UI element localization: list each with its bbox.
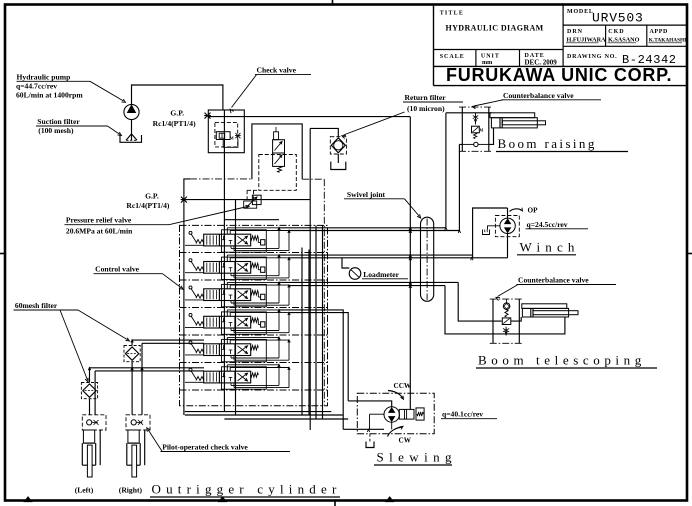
svg-text:q=40.1cc/rev: q=40.1cc/rev — [442, 410, 483, 419]
section 3 lever — [189, 286, 192, 289]
wire boom raising A — [279, 227, 446, 229]
control valve boundary dash-dot — [180, 225, 328, 405]
svg-text:APPD: APPD — [650, 29, 668, 35]
svg-text:OP: OP — [528, 207, 539, 215]
pilot dash to relief — [253, 190, 255, 199]
section 4 lever — [189, 313, 192, 316]
section 3 enclosing rect — [222, 284, 267, 306]
leader to check valve — [232, 75, 257, 108]
pilot check valve right — [126, 415, 150, 430]
wires boom raising valve — [446, 112, 492, 114]
svg-text:SCALE: SCALE — [440, 54, 465, 60]
loadmeter gauge — [349, 268, 361, 280]
section 4 pilot box — [261, 322, 265, 327]
svg-text:(100 mesh): (100 mesh) — [38, 126, 74, 135]
section 1 lever — [189, 231, 192, 234]
pilot dash drop — [246, 190, 248, 199]
svg-text:Hydraulic pump: Hydraulic pump — [17, 73, 71, 82]
wire telescoping A — [279, 281, 458, 283]
leader — [498, 285, 519, 297]
pilot check valve left — [82, 415, 106, 430]
leader to relief valve — [169, 207, 248, 225]
appd underline — [649, 42, 683, 44]
outrigger cylinder right — [128, 430, 139, 443]
svg-text:HYDRAULIC DIAGRAM: HYDRAULIC DIAGRAM — [446, 24, 544, 33]
work port verticals — [301, 248, 303, 416]
tele cb body — [502, 318, 511, 325]
svg-text:G.P.: G.P. — [145, 192, 159, 201]
svg-text:Return filter: Return filter — [405, 93, 447, 102]
section divider — [180, 279, 328, 281]
svg-text:CKD: CKD — [608, 29, 624, 35]
OP arrow — [510, 209, 522, 212]
section 4 spring — [251, 318, 259, 322]
G.P. port star bottom — [181, 197, 188, 203]
check valve inner dashed box — [215, 122, 238, 146]
wire pump to suction filter — [131, 120, 133, 140]
boom raising counterbalance box — [461, 107, 463, 151]
assembly boundary right — [323, 179, 325, 405]
pump triangle — [128, 105, 136, 112]
section 5 port wires — [226, 337, 228, 343]
leader — [474, 100, 503, 106]
section 5 lever — [189, 341, 192, 344]
leaders to filters — [60, 310, 88, 380]
svg-text:Control valve: Control valve — [95, 265, 140, 274]
check valve wire — [223, 139, 238, 147]
control valve section 5 spool — [204, 344, 251, 356]
svg-text:Rc1/4(PT1/4): Rc1/4(PT1/4) — [153, 119, 196, 128]
relief arrow — [246, 197, 257, 208]
tank line top — [224, 219, 279, 221]
section divider — [180, 362, 328, 364]
cb circle port — [474, 142, 478, 146]
wires outrigger row6 — [90, 368, 205, 383]
leader to control valve — [163, 274, 182, 288]
suction filter symbol — [126, 134, 137, 140]
control valve section 4 spool — [204, 316, 251, 328]
leader — [148, 430, 162, 452]
boom raising cylinder — [490, 113, 535, 118]
winch motor — [500, 218, 515, 233]
control valve section 3 spool — [204, 289, 251, 301]
title block — [433, 5, 435, 86]
slewing unit box — [357, 393, 434, 434]
frame triangle bottom 1 — [25, 497, 32, 502]
assembly boundary top left — [190, 178, 252, 180]
section 6 lever — [189, 368, 192, 371]
svg-text:(10 micron): (10 micron) — [407, 104, 445, 113]
unloader spring — [278, 166, 282, 172]
section 6 port wires — [226, 365, 228, 371]
brake release line — [409, 254, 411, 409]
section 4 enclosing rect — [222, 312, 267, 334]
winch brake — [488, 226, 500, 230]
svg-text:TITLE: TITLE — [440, 11, 464, 17]
svg-text:Boom telescoping: Boom telescoping — [478, 353, 646, 368]
svg-text:60L/min at 1400rpm: 60L/min at 1400rpm — [16, 91, 83, 100]
section 1 port wires — [226, 228, 228, 234]
svg-text:Loadmeter: Loadmeter — [363, 270, 399, 279]
svg-text:Rc1/4(PT1/4): Rc1/4(PT1/4) — [126, 201, 169, 210]
swivel joint capsule — [421, 217, 434, 301]
G.P. port star top — [204, 113, 211, 119]
wire telescoping B — [289, 285, 445, 287]
svg-text:Suction filter: Suction filter — [37, 117, 80, 126]
assembly boundary top right — [302, 178, 324, 180]
frame tick bottom — [334, 501, 336, 506]
svg-text:CW: CW — [399, 437, 412, 445]
cb check valve element — [475, 113, 477, 125]
check valve star port — [235, 133, 241, 138]
wire slewing tap B — [289, 313, 348, 401]
section 1 enclosing rect — [222, 230, 267, 252]
section 2 spring — [251, 263, 259, 267]
section 1 pilot box — [261, 240, 265, 245]
drn underline — [566, 42, 599, 44]
check valve element — [216, 132, 230, 140]
svg-text:M: M — [230, 136, 234, 141]
section 3 pilot box — [261, 294, 265, 299]
tele cb bottom arrow — [505, 327, 507, 336]
section 2 lever — [189, 259, 192, 262]
check valve outer box — [208, 110, 244, 153]
wire return filter to block — [310, 128, 338, 136]
unloader top stub — [275, 127, 277, 132]
svg-text:q=44.7cc/rev: q=44.7cc/rev — [16, 82, 57, 91]
frame triangle bottom 3 — [386, 497, 393, 502]
relief line across — [184, 199, 310, 201]
svg-text:Check valve: Check valve — [257, 66, 297, 75]
wires telescoping — [458, 282, 501, 321]
junction arrows — [367, 429, 369, 432]
svg-text:(Left): (Left) — [75, 486, 94, 495]
svg-text:60mesh filter: 60mesh filter — [15, 301, 58, 310]
ckd underline — [608, 42, 637, 44]
swivel centerline — [426, 219, 428, 301]
wire return line down — [309, 128, 311, 430]
motor triangle top — [505, 219, 510, 223]
slewing motor — [384, 407, 399, 422]
telescoping cylinder — [522, 304, 567, 309]
internal line 2 — [235, 200, 237, 415]
section divider — [180, 334, 328, 336]
return filter tank — [337, 154, 339, 163]
suction tank — [120, 135, 142, 142]
svg-text:Counterbalance valve: Counterbalance valve — [503, 91, 574, 100]
leader to swivel joint — [405, 199, 420, 217]
leader to return filter — [344, 112, 405, 135]
hydraulic pump symbol — [124, 104, 139, 119]
frame triangle bottom 2 — [219, 497, 226, 502]
wires slewing — [343, 428, 384, 430]
section 1 spring — [251, 236, 259, 240]
section 5 enclosing rect — [222, 339, 267, 361]
tele cb circle diamond — [503, 303, 510, 310]
leader to suction filter — [108, 126, 121, 135]
section 3 spring — [251, 291, 259, 295]
unloader valve body — [273, 140, 285, 153]
wire boom raising B — [289, 230, 459, 232]
unloader top port — [274, 132, 279, 140]
svg-text:G.P.: G.P. — [170, 109, 184, 118]
slewing tank — [369, 434, 371, 442]
wire main pressure line — [208, 116, 410, 118]
section 4 port wires — [226, 310, 228, 316]
unloader arrow upper — [275, 142, 283, 151]
svg-text:M: M — [480, 129, 484, 133]
wire slewing tap A — [279, 310, 343, 429]
section 2 pilot box — [261, 267, 265, 272]
wires outrigger row5 — [132, 340, 204, 345]
slewing brake cylinder — [399, 409, 414, 419]
winch circuit box — [473, 208, 508, 255]
svg-text:DRN: DRN — [567, 29, 583, 35]
control valve solid frame — [184, 179, 190, 415]
wire winch return H4 — [289, 257, 508, 259]
cb relief body — [472, 126, 480, 133]
svg-text:Outrigger cylinder: Outrigger cylinder — [152, 482, 342, 497]
svg-text:DRAWING NO.: DRAWING NO. — [567, 54, 617, 60]
frame tick top — [332, 0, 334, 5]
control valve section 2 spool — [204, 262, 251, 274]
svg-text:q=24.5cc/rev: q=24.5cc/rev — [527, 220, 568, 229]
wire pressure line down to swivel — [409, 117, 411, 256]
section divider — [180, 307, 328, 309]
frame tick left — [0, 253, 5, 255]
loadmeter tap wire — [342, 258, 349, 268]
svg-text:URV503: URV503 — [592, 11, 644, 26]
svg-text:Winch: Winch — [520, 240, 580, 255]
svg-text:(Right): (Right) — [119, 486, 143, 495]
leader to pump — [90, 81, 124, 101]
return filter diamond — [331, 138, 345, 153]
svg-text:Boom raising: Boom raising — [498, 136, 597, 151]
svg-text:Slewing: Slewing — [377, 450, 457, 465]
outrigger cylinder left — [83, 430, 94, 443]
return filter dashed box — [330, 137, 346, 154]
svg-text:Swivel joint: Swivel joint — [347, 190, 386, 199]
svg-text:Pressure relief valve: Pressure relief valve — [66, 216, 132, 225]
wire pump to check valve — [132, 85, 223, 110]
pump line through block — [223, 110, 225, 412]
svg-text:CCW: CCW — [394, 382, 412, 390]
section 5 spring — [251, 346, 259, 350]
section divider — [180, 389, 328, 391]
wires filters to check valves — [131, 362, 133, 415]
svg-text:20.6MPa at 60L/min: 20.6MPa at 60L/min — [66, 227, 133, 236]
unloader arrow lower — [275, 155, 283, 164]
telescoping counterbalance box — [492, 299, 494, 343]
section divider — [180, 252, 328, 254]
60mesh filter 1 — [124, 346, 140, 362]
block bottom lines — [185, 411, 331, 413]
unloader pilot dashed box — [259, 155, 297, 191]
control valve section 1 spool — [204, 234, 251, 246]
winch motor dashed box — [495, 216, 519, 237]
60mesh filter 2 — [81, 383, 97, 399]
wire winch supply H3 — [279, 254, 473, 256]
frame tick right — [687, 253, 692, 255]
motor triangle bottom — [505, 228, 510, 232]
section 6 spring — [251, 373, 259, 377]
section 3 port wires — [226, 282, 228, 288]
section 6 enclosing rect — [222, 367, 267, 389]
svg-text:Counterbalance valve: Counterbalance valve — [518, 276, 589, 285]
unloader valve solid box — [252, 124, 302, 179]
section 2 enclosing rect — [222, 257, 267, 279]
svg-text:Pilot-operated check valve: Pilot-operated check valve — [162, 443, 248, 452]
svg-text:FURUKAWA UNIC CORP.: FURUKAWA UNIC CORP. — [446, 65, 672, 85]
svg-text:MODEL: MODEL — [567, 9, 594, 15]
control valve section 6 spool — [204, 371, 251, 383]
pilot dash ext — [247, 189, 259, 191]
relief valve body — [252, 195, 261, 204]
section 2 port wires — [226, 255, 228, 261]
swivel port arrows — [409, 227, 412, 230]
